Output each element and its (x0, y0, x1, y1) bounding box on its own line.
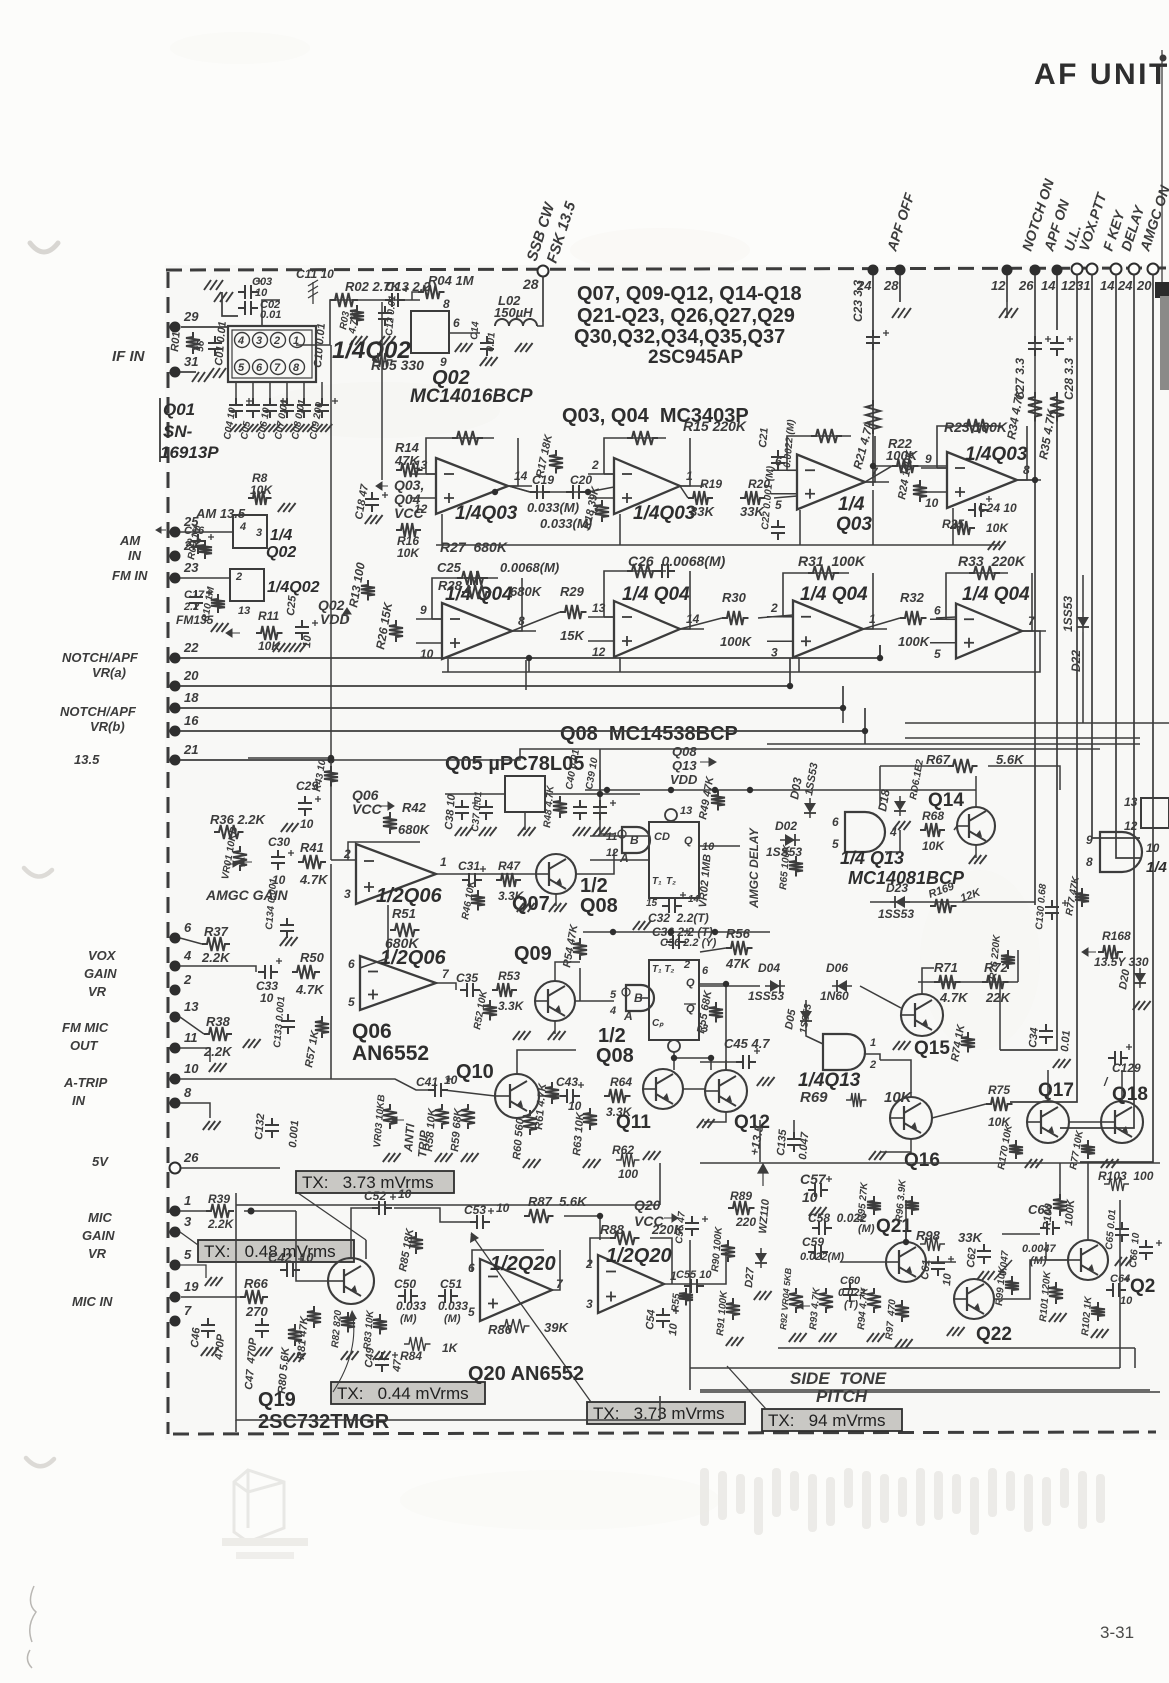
wire bottom rail2 (235, 1420, 237, 1432)
svg-text:15: 15 (646, 898, 658, 909)
svg-text:1N60: 1N60 (820, 989, 849, 1003)
resistor feedback C26 0.0068(M) of U-Q04b (627, 564, 658, 578)
wire pin5 (180, 1265, 206, 1278)
C135 capacitor (787, 1132, 801, 1152)
svg-text:2: 2 (683, 959, 690, 971)
U-Q03c feedback loop wire (787, 469, 797, 471)
wire q06a to q07 (456, 873, 536, 875)
op-amp U-Q04a (442, 603, 512, 659)
U-Q04d fb loop (946, 573, 1008, 619)
wire v874 down (872, 490, 874, 545)
U-Q04a fb right (512, 578, 522, 631)
diode D03 (804, 798, 816, 818)
R87 resistor (524, 1209, 554, 1223)
wire bus x1057 down (1056, 275, 1058, 330)
svg-text:C11 10: C11 10 (296, 267, 334, 281)
ground q11 (643, 1151, 661, 1160)
scan haze (165, 265, 1169, 1440)
R101 resistor (1049, 1282, 1063, 1304)
svg-text:10: 10 (184, 1061, 199, 1076)
connector pin 18 left (170, 703, 181, 714)
svg-text:3: 3 (586, 1297, 593, 1311)
svg-text:Q06: Q06 (352, 1020, 392, 1043)
svg-text:1/4Q03: 1/4Q03 (965, 444, 1028, 465)
wire fb q20a (472, 1250, 544, 1272)
wire mid drop q05 (599, 749, 601, 770)
wire lower frame2 (659, 1396, 661, 1420)
svg-text:10: 10 (496, 1201, 510, 1215)
svg-text:1/4: 1/4 (270, 527, 292, 544)
svg-text:2: 2 (869, 1059, 876, 1071)
svg-text:13: 13 (680, 805, 692, 817)
ground above Q01 (214, 292, 233, 302)
R26 resistor (389, 620, 403, 642)
svg-text:10: 10 (1120, 1295, 1133, 1307)
U-Q04a output wire (512, 630, 536, 632)
dashed border bottom (173, 1432, 1156, 1434)
wire q20b fb r (650, 1238, 672, 1284)
svg-text:9: 9 (420, 603, 427, 617)
wire Q03d out (1017, 479, 1035, 481)
R13 resistor (361, 580, 375, 601)
wire q06a out (436, 873, 456, 875)
C41 capacitor (428, 1083, 448, 1097)
svg-text:R87 5.6K: R87 5.6K (528, 1194, 588, 1209)
R56 resistor (726, 941, 753, 955)
svg-text:C43: C43 (556, 1075, 578, 1089)
wire q22 base (994, 1260, 1012, 1280)
svg-text:SIDE TONE: SIDE TONE (790, 1369, 887, 1388)
AND gate Q13a (845, 812, 885, 852)
svg-text:Q: Q (684, 835, 693, 847)
wire d05 drop (806, 1000, 823, 1044)
svg-text:4: 4 (237, 335, 244, 347)
wire d23 row (870, 901, 1035, 903)
wire top chain (296, 300, 420, 345)
svg-text:7: 7 (274, 362, 281, 374)
ground r63 (583, 1159, 601, 1168)
connector pin 6 left (170, 933, 181, 944)
svg-text:10: 10 (568, 1099, 582, 1113)
diode D22 (1077, 612, 1089, 632)
wire q09 e (554, 1021, 556, 1034)
ground vr04 (789, 1333, 807, 1342)
svg-text:10: 10 (925, 496, 939, 510)
Q01 pin 2 circle (271, 333, 286, 348)
svg-text:R30: R30 (722, 590, 747, 605)
svg-text:MIC: MIC (88, 1210, 112, 1225)
C62 capacitor (977, 1244, 991, 1264)
svg-text:R47: R47 (498, 859, 521, 873)
svg-text:6: 6 (453, 316, 460, 330)
svg-text:C14: C14 (469, 321, 482, 341)
svg-text:C28 3.3: C28 3.3 (1062, 358, 1076, 400)
svg-text:1/2: 1/2 (580, 875, 608, 897)
wire sidetone1 (690, 1367, 1120, 1369)
svg-text:39K: 39K (544, 1320, 569, 1335)
svg-text:R27 680K: R27 680K (440, 539, 508, 555)
U-Q03b feedback loop wire (604, 473, 614, 475)
R74 resistor (961, 1032, 975, 1053)
R29 resistor (560, 605, 587, 619)
vdd arrow2 (700, 758, 716, 766)
svg-text:5: 5 (468, 1305, 475, 1319)
U-Q04b minus input wire (588, 616, 614, 618)
Q01 pin 8 circle (290, 360, 305, 375)
svg-text:AMGC DELAY: AMGC DELAY (747, 827, 761, 909)
junction r39 (248, 1208, 255, 1215)
dashed border top (166, 268, 1169, 270)
U-Q04b feedback loop wire (604, 616, 614, 618)
svg-text:VR(b): VR(b) (90, 719, 125, 734)
wire q04b out (680, 618, 722, 629)
C65 capacitor (1115, 1222, 1129, 1242)
wire fm in (180, 577, 230, 579)
transistor Q12 (705, 1070, 747, 1112)
svg-text:Q22: Q22 (976, 1324, 1012, 1345)
wire mic rail (236, 1204, 248, 1206)
wire box2 right (699, 984, 726, 1070)
svg-text:Q01: Q01 (163, 400, 195, 419)
wire q07 out right (576, 850, 614, 874)
wire q15 right rail (1017, 950, 1019, 982)
svg-text:1/2Q20: 1/2Q20 (606, 1245, 672, 1267)
R170 resistor (1009, 1140, 1023, 1159)
connector pin 31 at x1092 (1087, 264, 1098, 275)
svg-text:Q08 MC14538BCP: Q08 MC14538BCP (560, 723, 738, 745)
wire q03c out (865, 466, 892, 482)
wire c63 row (1002, 1233, 1040, 1235)
junction dot 6 (597, 791, 603, 797)
svg-text:100K: 100K (1063, 1198, 1077, 1226)
connector pin 13 left (170, 1012, 181, 1023)
svg-text:12: 12 (592, 645, 606, 659)
svg-text:10: 10 (667, 1322, 680, 1336)
capacitor C04 (229, 398, 243, 418)
wire q06a in (331, 859, 356, 861)
measurement box TX3 (331, 1382, 485, 1404)
svg-text:1/4Q03: 1/4Q03 (455, 503, 518, 524)
R85 resistor (409, 1232, 423, 1254)
svg-text:R41: R41 (300, 840, 324, 855)
U-Q03c output wire (865, 481, 889, 483)
svg-text:13.5: 13.5 (74, 752, 100, 767)
C58 capacitor (812, 1221, 832, 1235)
U-Q04c minus input wire (767, 616, 793, 618)
svg-text:5: 5 (832, 837, 839, 851)
R19 resistor (688, 491, 713, 505)
ground R10 (211, 623, 229, 632)
svg-text:3-31: 3-31 (1100, 1623, 1134, 1642)
capacitor C09 (315, 398, 329, 418)
wire q04 drop b (619, 657, 621, 672)
junction dot 9 (585, 489, 591, 495)
leader arrow TX3 (348, 1310, 357, 1320)
svg-text:470P: 470P (213, 1333, 227, 1361)
wire right rail2 (905, 737, 1140, 739)
measurement box TX5 (762, 1409, 902, 1431)
wire net21 junction (328, 757, 335, 764)
svg-text:C34: C34 (1027, 1027, 1041, 1048)
wire pin28 down (542, 276, 544, 322)
U-Q03d minus input wire (921, 467, 947, 469)
long vertical x382 (381, 302, 383, 480)
svg-text:11: 11 (606, 831, 617, 843)
svg-text:150µH: 150µH (494, 305, 533, 320)
wire mid down1 (599, 770, 601, 794)
svg-text:R86: R86 (488, 1322, 513, 1337)
wire q16 top (880, 1060, 911, 1097)
svg-text:VOX: VOX (88, 948, 117, 963)
dashed border left (167, 272, 170, 1434)
svg-text:4: 4 (609, 1005, 616, 1017)
R18 resistor (595, 500, 609, 522)
Q01 pin 5 circle (235, 360, 250, 375)
transistor Q09 (535, 981, 575, 1021)
svg-text:100: 100 (618, 1167, 638, 1181)
svg-text:20: 20 (183, 668, 199, 683)
wire c52 c53 (394, 1208, 470, 1222)
U-Q04b fb right (680, 571, 690, 629)
svg-text:5: 5 (934, 647, 941, 661)
Q01 pin 6 circle (253, 360, 268, 375)
svg-text:C45 4.7: C45 4.7 (724, 1036, 770, 1051)
svg-text:R62: R62 (612, 1143, 634, 1157)
R93 resistor (819, 1288, 833, 1313)
svg-text:47K: 47K (725, 956, 751, 971)
ground R8 (278, 503, 296, 512)
R95 resistor (867, 1196, 881, 1215)
U-Q04d minus input wire (930, 618, 956, 620)
connector pin 25 left (170, 527, 181, 538)
wire c41 line (444, 1090, 495, 1096)
resistor feedback of U-Q03c (811, 429, 842, 443)
wire q03 rail drops a (441, 514, 443, 545)
wire cd box right (699, 845, 740, 847)
Q08 box1 pin13 circle (665, 809, 677, 821)
svg-text:C21: C21 (757, 427, 771, 448)
R53 resistor (492, 983, 517, 997)
ground c47 (255, 1347, 273, 1356)
wire L02 to pin28 (537, 322, 543, 326)
junction dot 14 (723, 981, 729, 987)
wire r67 (880, 765, 948, 767)
svg-text:6: 6 (348, 957, 355, 971)
wire r21 join (873, 460, 928, 466)
wire net16 vert (864, 731, 866, 744)
C34 capacitor (1039, 1024, 1053, 1044)
svg-text:10K: 10K (250, 483, 273, 497)
svg-text:Q15: Q15 (914, 1038, 950, 1059)
svg-text:VDD: VDD (670, 772, 698, 787)
R89 resistor (728, 1201, 755, 1215)
transistor Q16 (890, 1097, 932, 1139)
gate B2 (626, 985, 654, 1011)
R63 resistor (583, 1108, 597, 1130)
svg-text:18: 18 (184, 690, 199, 705)
svg-text:C41: C41 (416, 1075, 438, 1089)
transistor Q19 (328, 1258, 374, 1304)
svg-text:C42 10: C42 10 (268, 1250, 314, 1265)
C56 capacitor (685, 1216, 699, 1236)
wire q22 q23 link (994, 1260, 1068, 1299)
svg-text:VR(a): VR(a) (92, 665, 126, 680)
R90 resistor (721, 1240, 735, 1262)
svg-text:100K: 100K (898, 634, 931, 649)
VDD arrow (343, 608, 351, 622)
wire q20 out (664, 1283, 700, 1285)
svg-text:OUT: OUT (70, 1038, 99, 1053)
wire q09 c up (555, 962, 580, 981)
C57 capacitor (808, 1183, 828, 1197)
svg-text:10K: 10K (397, 546, 420, 560)
VR01 arrow (226, 861, 238, 867)
wire amgc vertical (330, 864, 332, 1079)
wire q14e (975, 845, 977, 858)
capacitor C07 (280, 398, 294, 418)
wire q03 rail drops b (619, 514, 621, 545)
svg-text:Q16: Q16 (904, 1150, 940, 1171)
op-amp U-Q04c (793, 601, 863, 658)
ground C12 (378, 336, 396, 345)
U-Q04b plus input wire (588, 640, 614, 642)
svg-text:1/2Q06: 1/2Q06 (380, 947, 446, 969)
svg-text:14: 14 (688, 894, 700, 905)
svg-text:10K: 10K (922, 839, 945, 853)
resistor R21 4.7K (866, 400, 880, 434)
svg-text:Q2: Q2 (1130, 1276, 1155, 1297)
U-Q03c minus input wire (771, 469, 797, 471)
R91 resistor (726, 1298, 740, 1320)
arrow fm135 (226, 629, 240, 637)
C51 capacitor (438, 1289, 458, 1303)
U-Q03c plus input wire (771, 493, 797, 495)
wire q20b fb (590, 1238, 610, 1266)
svg-text:C26 0.0068(M): C26 0.0068(M) (628, 553, 726, 569)
svg-text:8: 8 (184, 1085, 192, 1100)
junction dot 0 (328, 755, 334, 761)
wire q06b in (180, 966, 256, 972)
connector pin 24 at x873 (868, 265, 879, 276)
svg-text:R01: R01 (169, 331, 183, 352)
connector pin 2 left (170, 985, 181, 996)
svg-text:26: 26 (183, 1150, 199, 1165)
svg-text:C129: C129 (1112, 1061, 1141, 1075)
svg-text:T₂: T₂ (666, 876, 676, 887)
svg-text:1/4Q02: 1/4Q02 (267, 579, 320, 596)
junction dot 10 (877, 655, 883, 661)
svg-text:Q08: Q08 (672, 744, 697, 759)
svg-text:NOTCH/APF: NOTCH/APF (60, 704, 137, 719)
R20 resistor (740, 491, 765, 505)
resistor feedback R27 680K of U-Q04a (457, 571, 488, 585)
svg-text:AN6552: AN6552 (352, 1042, 429, 1065)
hole punch shadow top (30, 243, 58, 252)
junction vdd 6 (712, 929, 718, 935)
svg-text:1: 1 (686, 469, 693, 483)
R51 resistor (390, 923, 420, 937)
svg-text:MIC IN: MIC IN (72, 1294, 113, 1309)
Q01 pin 1 circle (290, 333, 305, 348)
R71 resistor (934, 975, 961, 989)
U-Q03d fb loop (937, 426, 1003, 468)
svg-text:IN: IN (128, 548, 142, 563)
wire q03 rail drops d (952, 508, 954, 545)
transistor Q15 (901, 994, 943, 1036)
svg-text:D27: D27 (743, 1266, 757, 1288)
C50 capacitor (398, 1289, 418, 1303)
diode D06 (832, 985, 852, 987)
op-amp U-Q03d (947, 452, 1017, 508)
measurement box TX1 (296, 1171, 454, 1193)
svg-text:14: 14 (1100, 278, 1115, 293)
connector pin 1 left (170, 1206, 181, 1217)
arrow am (156, 527, 166, 533)
wire q04c out (863, 618, 900, 629)
IC Q02 switch box (411, 311, 449, 353)
C25b capacitor (295, 620, 309, 640)
capacitor C13 2.2 (385, 293, 405, 307)
R86 resistor (500, 1319, 530, 1333)
ground r102 (1091, 1329, 1109, 1338)
svg-text:0.033(M): 0.033(M) (527, 500, 579, 515)
junction vdd 2 (712, 787, 718, 793)
svg-text:NOTCH/APF: NOTCH/APF (62, 650, 139, 665)
C26 capacitor fb (655, 564, 675, 578)
svg-text:C55 10: C55 10 (676, 1269, 712, 1281)
C17 capacitor (189, 590, 203, 610)
R69 resistor (846, 1093, 867, 1107)
svg-text:10: 10 (941, 1272, 954, 1286)
VR01 pot (233, 846, 247, 871)
capacitor C18 47 (365, 492, 379, 512)
resistor R35 4.7K (1050, 392, 1064, 422)
wire box2 pin3 drop (674, 1052, 711, 1070)
wire 5V (181, 1167, 280, 1169)
resistor R34 4.7K (1028, 392, 1042, 422)
connector pin 4 left (170, 961, 181, 972)
U-Q03a minus input wire (410, 473, 436, 475)
svg-text:D23: D23 (886, 881, 908, 895)
U-Q03b output wire (680, 485, 704, 487)
ground r59 (461, 1153, 479, 1162)
gate B1 (622, 827, 650, 853)
R30 resistor (722, 611, 749, 625)
R50 resistor (292, 965, 320, 979)
wire q23 coll ext (1087, 1163, 1089, 1200)
wire q18 top (1121, 1070, 1123, 1101)
ground r80 (288, 1353, 306, 1362)
svg-text:R89: R89 (730, 1189, 752, 1203)
svg-text:R168: R168 (1102, 929, 1131, 943)
measurement box TX4 (587, 1402, 745, 1424)
svg-text:FM135: FM135 (176, 613, 214, 627)
svg-text:Q13: Q13 (672, 758, 697, 773)
gate B1 circle (618, 830, 626, 838)
svg-text:(M): (M) (444, 1313, 461, 1325)
svg-text:2.2: 2.2 (183, 601, 199, 613)
svg-text:2: 2 (235, 571, 242, 583)
svg-text:28: 28 (883, 278, 899, 293)
svg-text:AM: AM (119, 533, 141, 548)
svg-text:22K: 22K (985, 990, 1011, 1005)
connector pin 28 at x900 (895, 265, 906, 276)
junction dot 13 (248, 1208, 254, 1214)
svg-text:1/4 Q04: 1/4 Q04 (800, 584, 868, 605)
wire q12 e (704, 1112, 726, 1122)
ground q09 (548, 1031, 566, 1040)
svg-text:10: 10 (255, 287, 268, 299)
